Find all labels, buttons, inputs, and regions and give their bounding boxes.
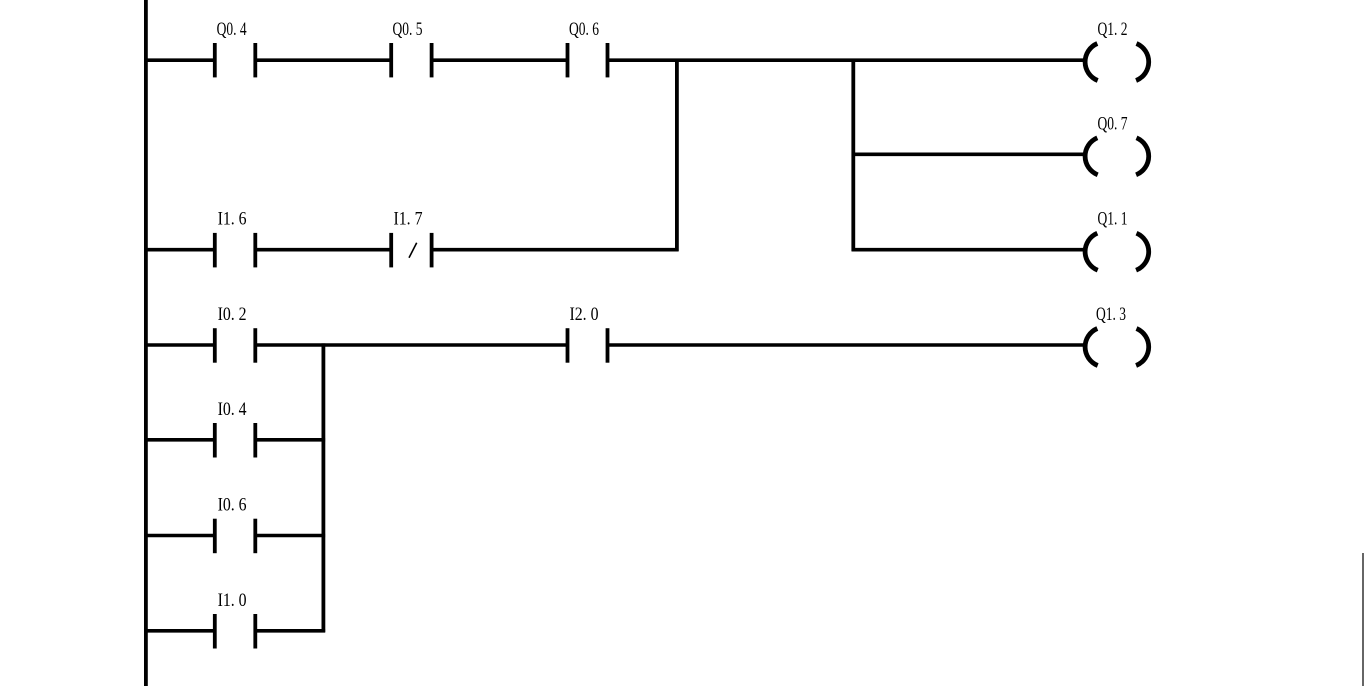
wire parallel branch vertical xyxy=(321,343,325,632)
left power rail xyxy=(144,0,148,686)
contact I0.2 xyxy=(213,328,217,363)
coil Q1.3 xyxy=(1085,329,1098,366)
wire node junction vertical to rung2 xyxy=(675,59,679,252)
wire rung4 rail to I0.4 xyxy=(146,438,215,442)
svg-text:Q0. 7: Q0. 7 xyxy=(1098,113,1128,134)
coil Q0.7 xyxy=(1085,138,1098,175)
svg-text:I0. 4: I0. 4 xyxy=(218,399,247,420)
contact I0.6 xyxy=(213,519,217,554)
wire Q0.6 to coil Q1.2 xyxy=(608,58,1086,62)
wire I1.7 to junction xyxy=(432,248,679,252)
wire rung5 rail to I0.6 xyxy=(146,534,215,538)
svg-text:Q0. 6: Q0. 6 xyxy=(569,19,599,40)
contact Q0.5 xyxy=(389,43,393,77)
wire I0.4 to branch xyxy=(255,438,325,442)
svg-text:I0. 6: I0. 6 xyxy=(218,495,247,516)
svg-text:Q0. 4: Q0. 4 xyxy=(217,19,247,40)
wire I2.0 to coil Q1.3 xyxy=(608,343,1086,347)
wire I1.0 to branch xyxy=(255,629,325,633)
svg-text:I1. 6: I1. 6 xyxy=(218,209,247,230)
slash of I1.7 xyxy=(409,243,417,258)
svg-text:Q1. 2: Q1. 2 xyxy=(1098,19,1128,40)
wire rung6 rail to I1.0 xyxy=(146,629,215,633)
svg-text:I1. 0: I1. 0 xyxy=(218,590,247,611)
wire node vertical feeding coils xyxy=(851,59,855,252)
wire Q0.5 to Q0.6 xyxy=(432,58,568,62)
svg-text:Q1. 3: Q1. 3 xyxy=(1096,304,1126,325)
svg-text:Q0. 5: Q0. 5 xyxy=(393,19,423,40)
wire I1.6 to I1.7 xyxy=(255,248,391,252)
wire I0.2 to I2.0 xyxy=(255,343,567,347)
wire rung2 rail to I1.6 xyxy=(146,248,215,252)
wire rung1 rail to Q0.4 xyxy=(146,58,215,62)
wire rung3 rail to I0.2 xyxy=(146,343,215,347)
coil Q1.2 xyxy=(1085,44,1098,81)
wire to coil Q1.1 xyxy=(852,248,1086,252)
contact Q0.6 xyxy=(566,43,570,77)
coil Q1.1 xyxy=(1085,233,1098,270)
svg-text:I1. 7: I1. 7 xyxy=(394,209,423,230)
contact I2.0 xyxy=(566,328,570,363)
wire I0.6 to branch xyxy=(255,534,325,538)
window edge line bottom right xyxy=(1362,553,1364,686)
svg-text:I0. 2: I0. 2 xyxy=(218,304,247,325)
contact Q0.4 xyxy=(213,43,217,77)
wire to coil Q0.7 xyxy=(853,153,1085,157)
svg-text:I2. 0: I2. 0 xyxy=(570,304,599,325)
svg-text:Q1. 1: Q1. 1 xyxy=(1098,209,1128,230)
contact I1.0 xyxy=(213,614,217,649)
contact I0.4 xyxy=(213,423,217,458)
wire Q0.4 to Q0.5 xyxy=(255,58,391,62)
contact I1.6 xyxy=(213,233,217,268)
contact I1.7 normally closed xyxy=(389,233,393,268)
